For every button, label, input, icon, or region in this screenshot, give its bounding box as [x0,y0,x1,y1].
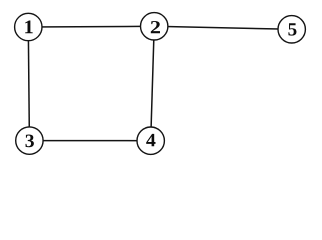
wire edge 1-2 [28,25,154,28]
node 3 [16,127,43,154]
node 2 [141,13,168,40]
node 5 [278,16,305,43]
wire edge 2-5 [154,26,292,29]
wire edge 2-4 [151,26,155,140]
wire edge 3-4 [29,140,150,142]
wire edge 1-3 [28,27,29,141]
node 1 [15,13,42,40]
node 4 [137,127,164,154]
